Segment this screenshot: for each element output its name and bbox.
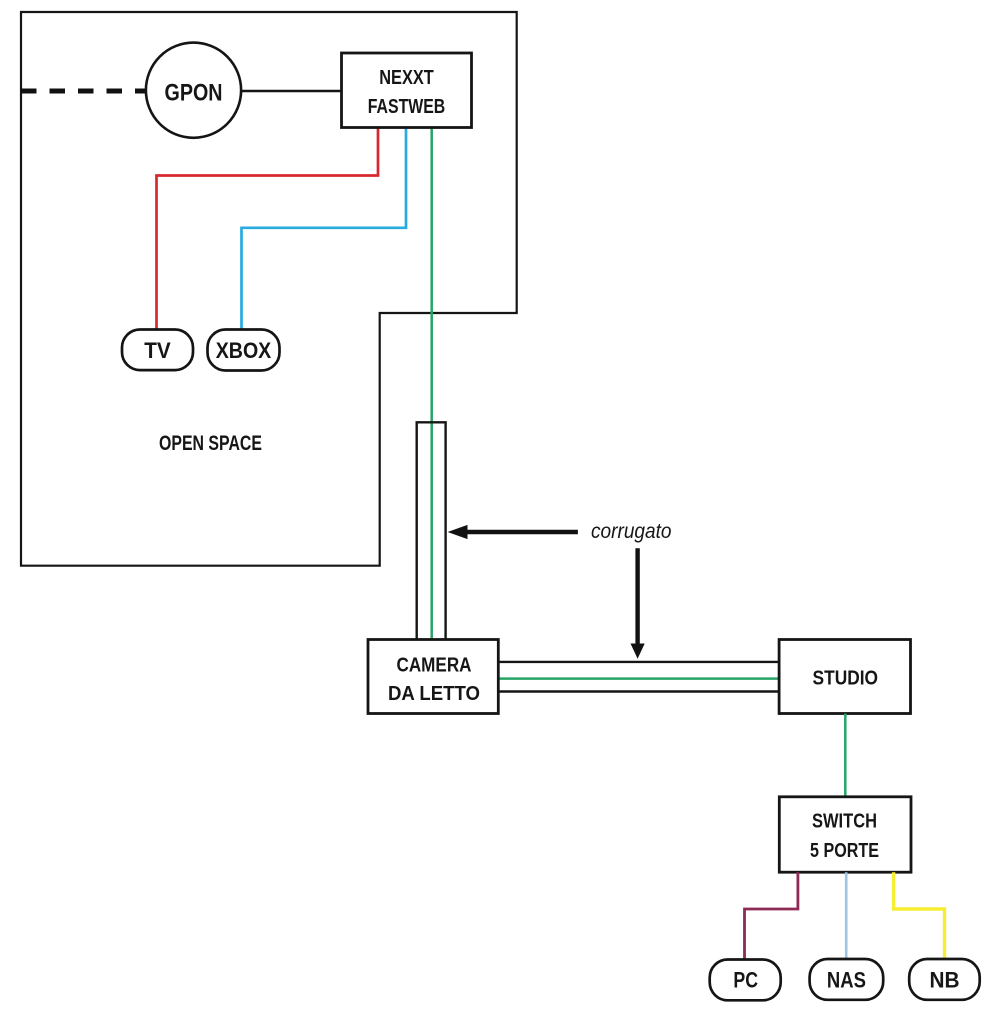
router NEXXT FASTWEB [342, 53, 472, 128]
node XBOX [208, 330, 280, 371]
wire green CAMERA DA LETTO to STUDIO [499, 677, 780, 680]
svg-text:DA LETTO: DA LETTO [388, 683, 480, 705]
svg-text:NB: NB [930, 968, 960, 993]
svg-text:5 PORTE: 5 PORTE [810, 840, 879, 862]
svg-text:FASTWEB: FASTWEB [368, 96, 446, 118]
svg-text:corrugato: corrugato [591, 520, 672, 543]
node NB [909, 959, 980, 1000]
svg-text:GPON: GPON [165, 80, 223, 107]
wire pale blue SWITCH to NAS [845, 872, 848, 959]
room CAMERA DA LETTO [368, 640, 498, 714]
conduit corrugato vertical [417, 422, 446, 640]
arrow to vertical conduit [448, 525, 578, 539]
room outline OPEN SPACE [21, 12, 517, 566]
svg-text:TV: TV [144, 338, 171, 363]
svg-text:XBOX: XBOX [216, 338, 272, 363]
node PC [710, 960, 781, 1001]
svg-text:CAMERA: CAMERA [397, 655, 472, 677]
arrow to horizontal conduit [631, 548, 645, 658]
svg-text:NAS: NAS [827, 968, 866, 993]
svg-text:NEXXT: NEXXT [379, 67, 434, 89]
svg-text:OPEN SPACE: OPEN SPACE [159, 432, 262, 455]
wire red to TV [157, 128, 379, 331]
wire yellow SWITCH to NB [894, 872, 945, 959]
node GPON [146, 43, 241, 138]
wire maroon SWITCH to PC [745, 872, 798, 959]
node TV [122, 330, 193, 371]
conduit corrugato horizontal [499, 661, 780, 663]
wire: dashed incoming fiber line [21, 89, 145, 94]
node NAS [810, 959, 884, 1000]
wire green NEXXT FASTWEB to CAMERA DA LETTO [430, 128, 433, 641]
wire green STUDIO to SWITCH [844, 714, 847, 798]
room STUDIO [779, 640, 910, 714]
switch SWITCH 5 PORTE [779, 797, 911, 872]
wire blue to XBOX [242, 128, 407, 331]
svg-text:STUDIO: STUDIO [813, 668, 879, 690]
wire GPON to NEXXT FASTWEB [241, 90, 342, 93]
svg-text:PC: PC [733, 968, 758, 993]
svg-text:SWITCH: SWITCH [812, 811, 877, 833]
